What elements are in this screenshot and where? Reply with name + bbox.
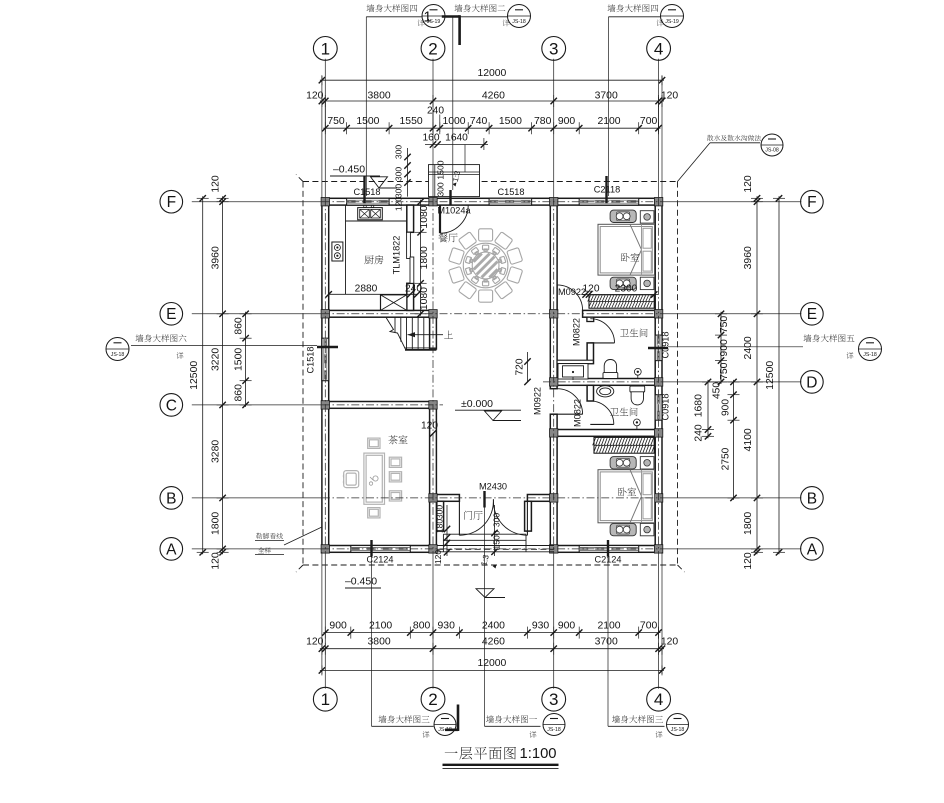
kitchen 2880 dim bbox=[329, 293, 418, 295]
svg-text:B: B bbox=[807, 490, 817, 507]
wall exterior north along axis F bbox=[322, 198, 662, 205]
callout qiangshen dayangtu 3 bottom-left bbox=[379, 715, 430, 723]
svg-text:3700: 3700 bbox=[595, 637, 618, 648]
svg-text:120: 120 bbox=[394, 197, 404, 212]
svg-text:1640: 1640 bbox=[445, 133, 468, 144]
svg-text:450: 450 bbox=[712, 382, 723, 399]
bedroom2 lamp table south bbox=[640, 523, 654, 535]
window C1518 stair west wall bbox=[322, 338, 329, 381]
svg-text:750: 750 bbox=[719, 316, 730, 334]
svg-text:1:100: 1:100 bbox=[520, 746, 557, 762]
svg-text:2: 2 bbox=[428, 690, 437, 709]
svg-text:2300: 2300 bbox=[615, 284, 638, 295]
svg-text:3: 3 bbox=[549, 690, 558, 709]
svg-text:JS-18: JS-18 bbox=[671, 727, 685, 733]
door M0822 bathroom1 bbox=[590, 342, 614, 344]
svg-text:930: 930 bbox=[438, 621, 456, 632]
window C1518 kitchen north bbox=[347, 198, 390, 205]
svg-text:750: 750 bbox=[327, 116, 345, 127]
bedroom2 dresser north bbox=[610, 457, 636, 469]
stair up arrow bbox=[408, 334, 444, 336]
svg-text:JS-19: JS-19 bbox=[665, 19, 679, 25]
svg-text:700: 700 bbox=[640, 621, 658, 632]
svg-text:120: 120 bbox=[661, 637, 679, 648]
svg-text:120: 120 bbox=[661, 90, 679, 101]
svg-text:A: A bbox=[166, 541, 177, 558]
callout qiangshen dayangtu 4 top-left bbox=[367, 4, 418, 12]
niche washbasin bbox=[558, 364, 588, 379]
svg-text:300: 300 bbox=[394, 184, 404, 199]
svg-text:2400: 2400 bbox=[743, 336, 754, 359]
label bathroom1 bbox=[620, 329, 647, 338]
wall vestibule west along axis 3 E to D bbox=[550, 317, 557, 378]
porch steps bbox=[443, 533, 526, 535]
svg-text:M2430: M2430 bbox=[479, 482, 507, 492]
svg-text:C2124: C2124 bbox=[594, 555, 621, 565]
bathroom2 toilet bbox=[630, 386, 645, 405]
dining round table with chairs bbox=[463, 243, 508, 288]
wall entrance along axis B with M2430 opening bbox=[430, 495, 460, 502]
svg-text:180: 180 bbox=[435, 519, 445, 534]
svg-text:900: 900 bbox=[720, 399, 731, 416]
callout sanshui top-right bbox=[707, 135, 761, 141]
wall bathroom2 west with M0822 opening bbox=[587, 385, 593, 401]
window C2118 bedroom1 north bbox=[579, 198, 639, 205]
svg-text:120: 120 bbox=[306, 90, 324, 101]
callout qiangshen dayangtu 4 top-right bbox=[608, 4, 659, 12]
svg-text:1500: 1500 bbox=[233, 348, 244, 371]
north steps dims bbox=[407, 148, 409, 197]
wall exterior east along axis 4 bbox=[655, 198, 662, 552]
svg-text:120: 120 bbox=[210, 552, 221, 570]
svg-text:–0.450: –0.450 bbox=[345, 576, 377, 588]
svg-text:M1024a: M1024a bbox=[437, 206, 471, 216]
svg-text:120: 120 bbox=[743, 552, 754, 570]
dimension tier2 top bbox=[320, 100, 664, 102]
door M0922 vestibule in axis3 wall bbox=[557, 413, 583, 415]
svg-text:E: E bbox=[807, 306, 817, 323]
svg-text:300: 300 bbox=[492, 513, 502, 528]
svg-text:1500: 1500 bbox=[492, 530, 502, 549]
svg-text:700: 700 bbox=[640, 116, 658, 127]
bedroom2 lamp table north bbox=[640, 457, 654, 469]
title yiceng pingmiantu bbox=[445, 747, 516, 760]
svg-text:1500: 1500 bbox=[356, 116, 379, 127]
axis circles top 1 2 3 4 bbox=[313, 37, 337, 61]
svg-text:M0822: M0822 bbox=[572, 318, 582, 346]
wall niche stub bbox=[557, 360, 593, 363]
north entry steps bbox=[429, 165, 480, 197]
wall porch east jamb bbox=[525, 501, 532, 531]
label kitchen bbox=[364, 255, 383, 264]
kitchen sink bbox=[358, 208, 383, 220]
svg-text:M0822: M0822 bbox=[573, 399, 583, 427]
door M0822 bathroom2 bbox=[590, 423, 614, 425]
svg-text:1550: 1550 bbox=[400, 116, 423, 127]
svg-text:120: 120 bbox=[210, 175, 221, 193]
svg-text:300: 300 bbox=[435, 505, 445, 520]
svg-text:750: 750 bbox=[719, 362, 730, 380]
wall exterior south tea-room along axis A bbox=[322, 546, 437, 553]
svg-text:2400: 2400 bbox=[482, 621, 505, 632]
svg-text:M0922: M0922 bbox=[533, 387, 543, 415]
svg-text:900: 900 bbox=[329, 621, 347, 632]
wall exterior south bedroom along axis A bbox=[550, 546, 662, 553]
svg-text:M0922: M0922 bbox=[558, 287, 586, 297]
bedroom1 lamp table south bbox=[640, 277, 654, 289]
svg-text:860: 860 bbox=[233, 384, 244, 402]
svg-text:240: 240 bbox=[427, 106, 444, 117]
svg-text:4100: 4100 bbox=[743, 428, 754, 451]
bedroom1 bed bbox=[598, 224, 655, 275]
svg-text:1800: 1800 bbox=[210, 512, 221, 535]
grid axis lines bbox=[192, 59, 802, 689]
callout qiangshen dayangtu 5 right bbox=[804, 334, 855, 342]
svg-text:240: 240 bbox=[694, 424, 705, 442]
wall along axis D bbox=[557, 379, 655, 386]
window C2124 bedroom2 south bbox=[579, 546, 639, 553]
svg-text:1500: 1500 bbox=[499, 116, 522, 127]
kitchen flue shaft bbox=[381, 295, 407, 311]
bedroom1 dresser south bbox=[610, 277, 636, 289]
dimension system right bbox=[778, 196, 780, 554]
bedroom1 lamp table north bbox=[640, 211, 654, 223]
svg-text:F: F bbox=[167, 194, 176, 211]
kitchen counter edge lines bbox=[345, 205, 347, 294]
svg-text:12000: 12000 bbox=[477, 658, 506, 669]
svg-text:120: 120 bbox=[433, 550, 443, 565]
svg-text:300: 300 bbox=[436, 182, 446, 197]
wall bedroom1 south along axis E with M0922 opening bbox=[550, 310, 557, 317]
svg-text:1: 1 bbox=[321, 690, 330, 709]
svg-text:2880: 2880 bbox=[355, 284, 378, 295]
svg-text:2: 2 bbox=[428, 39, 437, 58]
window C2124 tea room south bbox=[351, 546, 411, 553]
window C0918 bathroom1 east bbox=[655, 335, 662, 361]
svg-text:1680: 1680 bbox=[694, 394, 705, 417]
svg-text:3960: 3960 bbox=[210, 246, 221, 269]
svg-text:C1518: C1518 bbox=[305, 346, 315, 373]
label bedroom1 bbox=[621, 253, 639, 262]
svg-text:3800: 3800 bbox=[368, 90, 391, 101]
door TLM1822 sliding bbox=[407, 232, 411, 258]
dimension system top bbox=[323, 127, 660, 129]
svg-text:C: C bbox=[166, 397, 177, 414]
svg-text:1500: 1500 bbox=[436, 160, 446, 179]
svg-text:JS-18: JS-18 bbox=[547, 727, 561, 733]
svg-text:–0.450: –0.450 bbox=[333, 164, 365, 176]
svg-text:4260: 4260 bbox=[482, 637, 505, 648]
dimension system left bbox=[202, 196, 204, 554]
svg-text:1800: 1800 bbox=[419, 246, 430, 269]
dimension overall 12000 top bbox=[320, 79, 664, 81]
svg-text:900: 900 bbox=[558, 621, 576, 632]
kitchen stove bbox=[332, 242, 343, 261]
wall porch west jamb bbox=[437, 501, 444, 531]
label bedroom2 bbox=[618, 488, 636, 497]
svg-text:740: 740 bbox=[470, 116, 488, 127]
stair break line bbox=[386, 317, 406, 350]
svg-text:720: 720 bbox=[515, 358, 526, 375]
label tea room bbox=[388, 435, 407, 444]
window C0918 bathroom2 east bbox=[655, 395, 662, 421]
svg-text:800: 800 bbox=[413, 621, 431, 632]
callout qiangshen dayangtu 3 bottom-right bbox=[612, 715, 663, 723]
bedroom2 wardrobe bbox=[593, 437, 655, 453]
callout qiangshen dayangtu 6 left bbox=[136, 334, 187, 342]
svg-text:B: B bbox=[166, 490, 176, 507]
bathroom1 toilet bbox=[603, 360, 618, 379]
porch dims rotated bbox=[446, 505, 448, 556]
svg-text:1: 1 bbox=[321, 39, 330, 58]
axis circles right F E D B A bbox=[801, 190, 824, 213]
bedroom1 wardrobe bbox=[588, 295, 655, 308]
stair label shang bbox=[444, 331, 453, 339]
stair treads bbox=[395, 317, 424, 350]
wall stair stringer below axis E bbox=[430, 317, 437, 349]
door M2430 double leaf bbox=[458, 501, 460, 535]
svg-text:900: 900 bbox=[558, 116, 576, 127]
svg-text:C0918: C0918 bbox=[660, 331, 670, 358]
svg-text:3800: 3800 bbox=[368, 637, 391, 648]
bathroom1 floor drain bbox=[634, 368, 641, 375]
svg-text:12500: 12500 bbox=[765, 361, 776, 390]
label porch bbox=[464, 511, 482, 520]
svg-text:780: 780 bbox=[534, 116, 552, 127]
wall along axis C bbox=[329, 402, 437, 409]
svg-text:860: 860 bbox=[233, 317, 244, 335]
dimension right 450 900 2750 bbox=[733, 380, 735, 500]
svg-text:930: 930 bbox=[532, 621, 550, 632]
svg-text:12500: 12500 bbox=[189, 361, 200, 390]
dimension right 1680 240 bbox=[707, 380, 709, 438]
svg-text:A: A bbox=[807, 541, 818, 558]
callout qiangshen dayangtu 1 bottom bbox=[486, 715, 537, 723]
stair bottom edge bbox=[405, 349, 436, 351]
bedroom2 dresser south bbox=[610, 523, 636, 535]
svg-text:2100: 2100 bbox=[597, 621, 620, 632]
door M1024a leaf and arc bbox=[439, 205, 441, 233]
dimension system bottom bbox=[323, 632, 660, 634]
svg-text:120: 120 bbox=[743, 175, 754, 193]
svg-text:C2118: C2118 bbox=[594, 185, 620, 195]
svg-text:1080: 1080 bbox=[419, 205, 430, 228]
wall bathroom2 south bbox=[557, 430, 655, 437]
svg-text:1000: 1000 bbox=[442, 116, 465, 127]
columns at grid intersections bbox=[321, 198, 663, 554]
tea room table and chairs bbox=[343, 438, 401, 518]
window C1518 dining north bbox=[489, 198, 531, 205]
wall kitchen south along axis E bbox=[322, 310, 437, 317]
svg-text:300: 300 bbox=[394, 145, 404, 160]
wall along axis 3 D to A with M0922 opening bbox=[550, 385, 557, 388]
dimension 160 1640 sub bbox=[425, 144, 488, 146]
svg-text:3280: 3280 bbox=[210, 440, 221, 463]
dimension 1080 1800 1080 kitchen partition bbox=[420, 200, 422, 316]
svg-text:2100: 2100 bbox=[369, 621, 392, 632]
svg-text:12000: 12000 bbox=[477, 68, 506, 79]
svg-text:JS-18: JS-18 bbox=[111, 352, 125, 358]
svg-text:±0.000: ±0.000 bbox=[461, 398, 493, 410]
svg-text:160: 160 bbox=[423, 133, 440, 144]
axis circles bottom 1 2 3 4 bbox=[313, 687, 337, 711]
door M0922 bedroom1 bbox=[556, 285, 558, 311]
section mark 1 bottom bbox=[457, 705, 460, 732]
bathroom2 floor drain bbox=[634, 419, 641, 426]
wall bedroom1 west along axis 3 F to E bbox=[550, 205, 557, 310]
svg-text:C1518: C1518 bbox=[353, 187, 380, 197]
svg-text:C1518: C1518 bbox=[497, 187, 524, 197]
svg-text:JS-08: JS-08 bbox=[765, 148, 779, 154]
svg-text:JS-18: JS-18 bbox=[863, 352, 877, 358]
svg-text:4: 4 bbox=[654, 39, 663, 58]
wall kitchen partition with TLM1822 bbox=[407, 205, 414, 232]
label bathroom2 bbox=[610, 408, 637, 417]
bathroom2 washbasin bbox=[597, 386, 614, 397]
wall exterior west along axis 1 bbox=[322, 198, 329, 552]
eaves overhang dashed outline bbox=[296, 175, 685, 573]
wall bathroom1 west with M0822 opening bbox=[587, 317, 594, 321]
svg-text:E: E bbox=[166, 306, 176, 323]
bedroom1 dim 120 2300 bbox=[583, 294, 659, 296]
svg-text:120: 120 bbox=[306, 637, 324, 648]
dimension 720 living bbox=[527, 352, 529, 382]
callout lejiao note bbox=[256, 533, 283, 539]
svg-text:3220: 3220 bbox=[210, 348, 221, 371]
bedroom1 dresser north bbox=[610, 210, 636, 222]
svg-text:2750: 2750 bbox=[720, 447, 731, 470]
svg-text:1: 1 bbox=[423, 10, 431, 26]
svg-text:4: 4 bbox=[654, 690, 663, 709]
label dining bbox=[438, 233, 457, 242]
callout qiangshen dayangtu 2 top bbox=[455, 4, 506, 12]
axis circles left F E C B A bbox=[160, 190, 183, 213]
wall tea room east along axis 2 from C to A bbox=[430, 402, 437, 553]
svg-text:JS-18: JS-18 bbox=[512, 19, 526, 25]
svg-text:3700: 3700 bbox=[595, 90, 618, 101]
svg-text:2100: 2100 bbox=[597, 116, 620, 127]
svg-text:1800: 1800 bbox=[743, 512, 754, 535]
svg-text:3: 3 bbox=[549, 39, 558, 58]
bedroom2 bed bbox=[598, 470, 655, 523]
svg-text:4260: 4260 bbox=[482, 90, 505, 101]
svg-text:C2124: C2124 bbox=[366, 555, 393, 565]
extension lines top edges bbox=[321, 76, 323, 198]
svg-text:1080: 1080 bbox=[419, 287, 430, 310]
svg-text:TLM1822: TLM1822 bbox=[392, 236, 402, 275]
svg-text:C0918: C0918 bbox=[660, 393, 670, 420]
svg-text:3960: 3960 bbox=[743, 246, 754, 269]
svg-text:900: 900 bbox=[719, 339, 730, 357]
svg-text:300: 300 bbox=[394, 167, 404, 182]
svg-text:D: D bbox=[806, 374, 817, 391]
svg-text:F: F bbox=[807, 194, 816, 211]
